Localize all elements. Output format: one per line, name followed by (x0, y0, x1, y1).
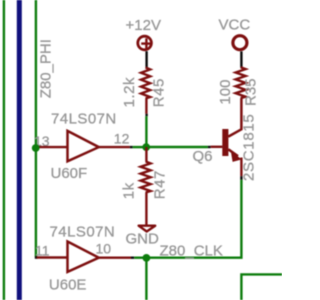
power symbol +12V (138, 36, 152, 50)
svg-text:U60E: U60E (49, 277, 87, 294)
wire: R47 upper pin lead (145, 147, 147, 161)
bus: vertical bus bar (17, 0, 22, 300)
wire: R45 lower pin lead (145, 99, 147, 114)
power symbol VCC (233, 36, 247, 50)
svg-text:1k: 1k (121, 182, 138, 199)
transistor Q6 collector lead (228, 98, 241, 136)
svg-text:74LS07N: 74LS07N (51, 110, 117, 127)
wire: bottom-right L net (241, 274, 282, 300)
wire: junction to Q6 base (146, 146, 208, 148)
IC buffer U60E (74LS07N) (68, 242, 99, 272)
wire: Q6 emitter pin lead (240, 158, 242, 177)
joint: pin end (black) (131, 257, 134, 259)
svg-text:VCC: VCC (219, 17, 251, 34)
svg-text:12: 12 (114, 130, 130, 146)
svg-text:11: 11 (35, 242, 50, 258)
IC buffer U60F (74LS07N) (68, 131, 99, 161)
joint: pin end (black) (208, 146, 211, 148)
joint: corner pin end (black) (35, 256, 38, 259)
resistor R45 (141, 68, 150, 99)
wire: R47 lower pin lead (145, 193, 147, 225)
junction: node at R45/R47 column (142, 143, 150, 151)
resistor R35 (236, 67, 246, 98)
transistor Q6 base bar (222, 129, 228, 156)
wire: U60F input pin lead (36, 146, 67, 148)
wire: VCC pin to R35 (black) (240, 51, 242, 67)
svg-text:U60F: U60F (51, 165, 88, 182)
svg-text:2SC1815: 2SC1815 (241, 114, 258, 181)
wire: U60F output pin lead (99, 146, 130, 148)
wire: U60E output pin lead (99, 257, 131, 259)
joint: pin end (black) (130, 146, 133, 148)
junction: Z80_CLK node (143, 254, 151, 262)
wire: Z80_CLK node down to edge (145, 258, 147, 300)
svg-text:+12V: +12V (126, 17, 161, 34)
joint: pin end (black) (240, 176, 242, 180)
svg-text:Q6: Q6 (193, 148, 213, 165)
wire: U60F output to junction (133, 146, 147, 148)
junction: U60F input node (32, 144, 40, 152)
svg-text:100: 100 (217, 80, 234, 105)
transistor Q6 emitter lead (228, 149, 238, 156)
wire: Z80_PHI vertical net (35, 0, 37, 257)
joint: pin end (black) (145, 114, 147, 116)
svg-text:R45: R45 (151, 78, 168, 107)
svg-text:1.2k: 1.2k (121, 77, 138, 108)
wire: U60E input pin lead (37, 256, 68, 258)
svg-text:R47: R47 (151, 170, 168, 199)
svg-text:Z80_PHI: Z80_PHI (38, 39, 55, 98)
svg-text:74LS07N: 74LS07N (50, 224, 116, 241)
svg-text:R35: R35 (243, 78, 260, 106)
svg-text:10: 10 (96, 240, 112, 256)
wire: emitter down to Z80_CLK corner (146, 180, 241, 258)
wire: +12V pin to R45 (black) (145, 51, 147, 68)
wire: U60E output to junction (134, 257, 146, 259)
wire: left vertical net segment (3, 0, 5, 300)
wire: net from R45 down to junction (145, 116, 147, 147)
svg-text:GND: GND (126, 230, 160, 247)
wire: Q6 base pin lead (211, 146, 223, 148)
ground symbol GND (139, 226, 156, 232)
transistor Q6 emitter arrow (232, 152, 241, 161)
svg-text:Z80_CLK: Z80_CLK (160, 242, 223, 259)
resistor R47 (141, 162, 151, 193)
